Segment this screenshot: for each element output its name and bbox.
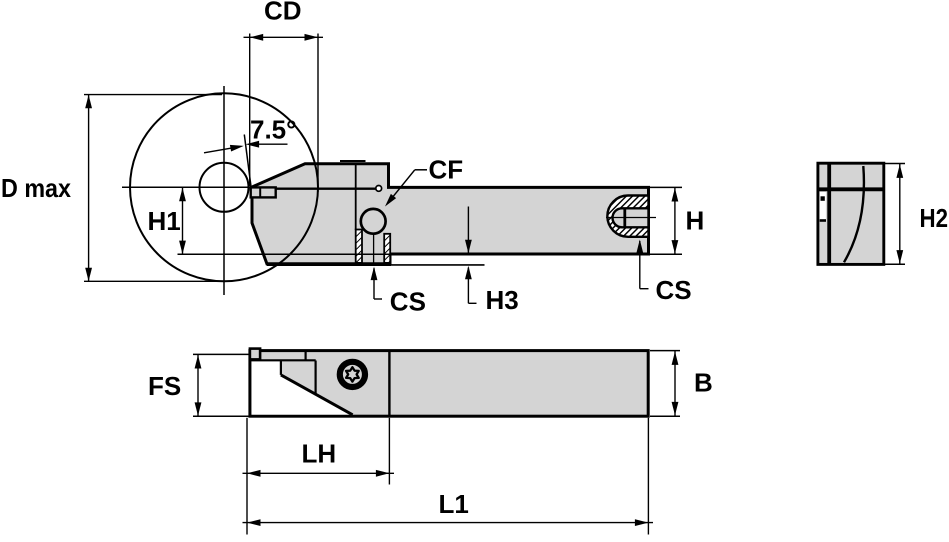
FS dimension [193, 353, 250, 355]
H2 dimension [884, 163, 905, 165]
thin line above top edge [340, 160, 366, 162]
torx screw [340, 362, 365, 387]
7.5 degree angle [244, 135, 251, 187]
svg-text:7.5°: 7.5° [250, 115, 297, 145]
svg-text:CF: CF [429, 155, 464, 185]
screw center line [373, 234, 375, 265]
H1 dimension [178, 253, 391, 255]
H3 dimension [391, 264, 485, 266]
D max dimension [84, 94, 222, 96]
end counterbore right [607, 196, 648, 237]
svg-text:FS: FS [148, 371, 181, 401]
svg-text:LH: LH [302, 439, 337, 469]
clamp hatch band right [384, 234, 390, 263]
svg-text:L1: L1 [439, 489, 469, 519]
bottom view [250, 351, 648, 417]
svg-text:CD: CD [264, 0, 302, 26]
svg-text:CS: CS [390, 286, 426, 316]
horizontal center line [122, 186, 252, 188]
extra thick bottom under clamp block [267, 262, 391, 266]
counterbore center line [606, 217, 656, 219]
vertical joint line [355, 165, 357, 230]
svg-text:H: H [686, 206, 705, 236]
H dimension [650, 186, 682, 188]
insert front square [250, 349, 260, 360]
svg-text:CS: CS [656, 275, 692, 305]
LH dimension [246, 418, 248, 535]
insert pocket [251, 187, 276, 197]
clamp hatch band left [356, 230, 362, 263]
svg-text:H1: H1 [148, 206, 181, 236]
clamp screw head CF circle [361, 209, 386, 234]
CD dimension [249, 34, 251, 187]
vertical center line [223, 86, 225, 295]
tool body side view [252, 164, 649, 264]
svg-text:H3: H3 [486, 285, 519, 315]
svg-text:H2: H2 [920, 203, 949, 233]
CS label right [636, 240, 643, 254]
workpiece circle D max [130, 93, 318, 281]
insert slot line [252, 187, 376, 189]
B dimension [650, 350, 680, 352]
screw end face in counterbore [623, 209, 626, 228]
svg-text:D max: D max [1, 173, 71, 203]
L1 dimension [647, 418, 649, 535]
inner circle [200, 163, 249, 212]
svg-text:B: B [694, 368, 713, 398]
end view top right [818, 163, 884, 264]
slot end hole [376, 186, 382, 192]
CS label left [371, 267, 378, 281]
